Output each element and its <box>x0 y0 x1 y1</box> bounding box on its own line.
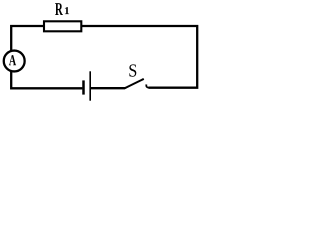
wire: bottom-left horizontal and left vertical below ammeter <box>11 72 82 89</box>
battery short electrode (-) <box>82 80 85 94</box>
switch S right contact hook <box>146 84 148 87</box>
ammeter label A <box>9 55 16 65</box>
battery long electrode (+) <box>89 71 91 100</box>
switch S blade (open) <box>125 79 144 89</box>
label S <box>129 64 136 76</box>
resistor R1 <box>44 21 81 31</box>
wire: left vertical and top-left horizontal to resistor <box>11 26 43 51</box>
label R1 <box>55 3 63 15</box>
wire: resistor right, right vertical, bottom-right horizontal <box>82 26 197 88</box>
wire: battery to switch <box>91 87 125 89</box>
ammeter circle <box>4 51 25 72</box>
